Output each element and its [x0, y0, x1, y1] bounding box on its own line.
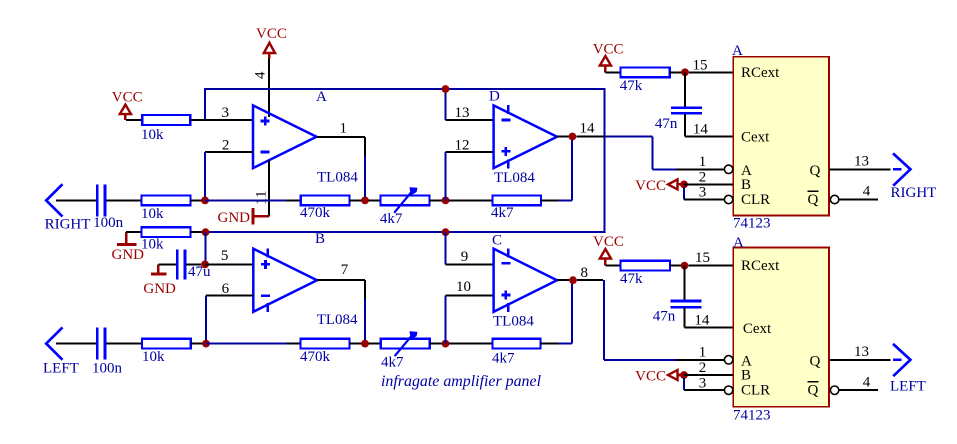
wire node to R 4k7	[449, 199, 493, 201]
designator A (74123 bottom)	[733, 235, 744, 251]
wire 100n to 10k	[106, 343, 142, 345]
power tick op-amp B top	[267, 248, 269, 257]
svg-text:Q: Q	[810, 163, 821, 179]
pin label A (bottom IC)	[741, 353, 752, 369]
op-amp U1C TL084	[494, 249, 557, 312]
wire pin 14 to 74123 pin 1	[576, 137, 724, 170]
power flag VCC (74123 A pins 2-3)	[635, 178, 681, 194]
pin number 13 (74123 A)	[854, 154, 869, 170]
svg-text:A: A	[732, 43, 743, 59]
svg-text:TL084: TL084	[317, 312, 358, 328]
wire GND to 10k	[126, 231, 142, 233]
node junction (pin 5)	[201, 261, 209, 269]
pin number 9 (op-amp C)	[461, 249, 469, 265]
svg-text:TL084: TL084	[317, 169, 358, 185]
svg-text:47k: 47k	[620, 271, 643, 287]
svg-text:4: 4	[863, 374, 871, 390]
pin label RCext (top IC)	[741, 65, 780, 81]
power tick op-amp B bottom	[267, 303, 269, 312]
wire net A bus (down to pin3 row, across top, down right side, back as net B)	[205, 89, 605, 232]
capacitor 47n (bottom)	[653, 301, 702, 325]
svg-text:D: D	[489, 88, 500, 104]
svg-text:4k7: 4k7	[381, 354, 404, 370]
port arrow LEFT input	[43, 327, 79, 376]
wire GND to 47u	[158, 263, 176, 265]
pin label A (top IC)	[741, 163, 752, 179]
node junction (op-amp A output feedback)	[361, 197, 369, 205]
node junction (op-amp C output)	[569, 276, 577, 284]
power tick op-amp D top	[507, 105, 509, 114]
pin number 12 (op-amp D)	[455, 138, 470, 154]
svg-text:CLR: CLR	[741, 192, 770, 208]
pin number 2 (74123 A)	[699, 170, 707, 186]
node junction (pins 2-3 VCC)	[680, 181, 688, 189]
svg-text:10k: 10k	[142, 349, 165, 365]
wire net A to pin 13	[446, 89, 494, 120]
resistor 4k7 (to op-amp D)	[491, 196, 541, 222]
label 74123 (bottom)	[733, 408, 771, 424]
wire 47n to Cext pin 14	[685, 114, 733, 136]
wire pin 1 output (to feedback node)	[317, 137, 366, 200]
svg-text:74123: 74123	[733, 408, 771, 424]
svg-text:A: A	[733, 235, 744, 251]
ground GND (op-amp A pin 11)	[218, 208, 269, 226]
bubble pin 1 (top IC)	[724, 165, 732, 173]
op-amp U1B TL084	[253, 249, 317, 312]
wire pin 3 elbow (top IC)	[684, 188, 724, 200]
resistor 10k (RIGHT input series)	[141, 196, 190, 223]
port arrow LEFT output	[890, 344, 926, 394]
power flag VCC (47k bottom)	[593, 234, 624, 266]
svg-text:3: 3	[222, 105, 230, 121]
svg-text:4: 4	[863, 184, 871, 200]
capacitor 100n (LEFT input)	[92, 328, 123, 377]
resistor 4k7 (to op-amp C)	[492, 339, 541, 367]
bubble pin 4 Qbar (bottom IC)	[830, 386, 838, 394]
svg-text:GND: GND	[112, 247, 145, 263]
svg-text:47n: 47n	[655, 116, 678, 132]
wire node down to pin 5 node	[205, 232, 207, 264]
svg-text:RCext: RCext	[741, 258, 780, 274]
wire LEFT arrow to C 100n	[56, 343, 96, 345]
pin number 1 (74123 A)	[699, 154, 707, 170]
svg-text:Q: Q	[810, 353, 821, 369]
svg-text:B: B	[741, 367, 751, 383]
svg-text:RIGHT: RIGHT	[45, 217, 91, 233]
svg-text:4k7: 4k7	[491, 205, 514, 221]
pin number 2 (74123 B)	[699, 360, 707, 376]
resistor 470k (op-amp A feedback)	[300, 196, 349, 222]
svg-text:2: 2	[222, 138, 230, 154]
node junction (RCext bottom)	[681, 262, 689, 270]
svg-text:C: C	[492, 233, 502, 249]
wire pin 3 elbow (bottom IC)	[684, 378, 724, 390]
svg-text:2: 2	[699, 170, 707, 186]
pin number 3	[222, 105, 230, 121]
svg-text:RIGHT: RIGHT	[891, 185, 937, 201]
designator C	[492, 233, 502, 249]
bubble pin 3 CLR (top IC)	[724, 195, 732, 203]
svg-text:8: 8	[580, 265, 588, 281]
svg-text:10k: 10k	[141, 206, 164, 222]
wire node to pot	[369, 343, 381, 345]
pin label Q (top IC)	[810, 163, 821, 179]
wire node to R 4k7	[449, 343, 493, 345]
svg-text:10: 10	[456, 279, 471, 295]
pin number 8 (op-amp C)	[580, 265, 588, 281]
pin number 6	[222, 281, 230, 297]
label TL084 (B)	[317, 312, 358, 328]
pin number 14 (op-amp D)	[580, 121, 596, 137]
pin number 15 (74123 A)	[693, 58, 708, 74]
svg-text:LEFT: LEFT	[890, 378, 926, 394]
pin number 1 (74123 B)	[699, 345, 707, 361]
capacitor 47u	[177, 249, 211, 279]
resistor 10k (pin 3 bias)	[141, 115, 190, 143]
svg-text:11: 11	[254, 191, 270, 205]
wire VCC to 47k	[605, 71, 620, 73]
svg-text:4k7: 4k7	[492, 351, 515, 367]
wire 10k to node	[190, 231, 202, 233]
wire pin 4 (top IC)	[839, 199, 878, 201]
power flag VCC (op-amp A pin 4)	[256, 26, 287, 59]
designator A (74123 top)	[732, 43, 743, 59]
svg-text:100n: 100n	[92, 360, 123, 376]
svg-text:VCC: VCC	[635, 178, 666, 194]
wire node to pot	[369, 199, 381, 201]
wire pin 4 (bottom IC)	[839, 389, 878, 391]
resistor 10k (net B bias)	[141, 227, 190, 252]
wire 100n to 10k	[106, 199, 141, 201]
svg-text:74123: 74123	[733, 216, 771, 232]
ground GND (47u)	[143, 264, 176, 297]
op-amp U1D TL084	[494, 105, 557, 168]
svg-text:B: B	[315, 231, 325, 247]
pin label B (bottom IC)	[741, 367, 751, 383]
svg-text:1: 1	[340, 121, 348, 137]
IC U2B 74123 body	[733, 248, 829, 407]
svg-text:1: 1	[699, 345, 707, 361]
svg-text:B: B	[741, 177, 751, 193]
wire pot to node	[430, 199, 442, 201]
bubble pin 4 Qbar (top IC)	[830, 195, 838, 203]
pin number 1	[340, 121, 348, 137]
node junction (op-amp D output)	[569, 133, 577, 141]
node junction (op-amp B inverting input)	[202, 340, 210, 348]
svg-text:VCC: VCC	[593, 42, 624, 58]
capacitor 47n (top)	[655, 108, 702, 132]
svg-text:12: 12	[455, 138, 470, 154]
IC U2A 74123 body	[733, 57, 829, 216]
pin number 5	[221, 248, 229, 264]
power tick op-amp C top	[507, 248, 509, 257]
svg-text:1: 1	[699, 154, 707, 170]
wire pin 2 elbow	[205, 152, 253, 200]
svg-text:10k: 10k	[141, 127, 164, 143]
port arrow RIGHT output	[891, 153, 937, 201]
power flag VCC (74123 B pins 2-3)	[635, 368, 681, 384]
svg-text:VCC: VCC	[112, 90, 143, 106]
svg-text:14: 14	[693, 121, 709, 137]
pin label CLR (top IC)	[741, 192, 770, 208]
node junction (pin 12 tap)	[442, 197, 450, 205]
svg-text:2: 2	[699, 360, 707, 376]
svg-text:10k: 10k	[141, 237, 164, 253]
svg-text:4: 4	[253, 71, 269, 79]
wire pin 12 elbow	[445, 152, 493, 200]
label TL084 (D)	[494, 170, 535, 186]
pin number 7	[341, 262, 349, 278]
designator D	[489, 88, 500, 104]
svg-text:Q: Q	[808, 383, 819, 399]
power flag VCC (10k bias)	[112, 90, 143, 120]
pin number 10 (op-amp C)	[456, 279, 471, 295]
label TL084 (A)	[317, 169, 358, 185]
node junction (op-amp A inverting input)	[201, 197, 209, 205]
svg-text:9: 9	[461, 249, 469, 265]
svg-text:14: 14	[580, 121, 596, 137]
node junction (pins 2-3 VCC bottom)	[680, 371, 688, 379]
pin number 13 (74123 B)	[854, 344, 869, 360]
node junction (net A / pin 13)	[442, 85, 450, 93]
wire pin 11 (op-amp A to ground)	[268, 160, 270, 216]
power tick op-amp C bottom	[507, 303, 509, 312]
svg-text:470k: 470k	[300, 205, 331, 221]
pin number 15 (74123 B)	[695, 250, 710, 266]
pin number 14 (74123 B Cext)	[694, 312, 710, 328]
svg-text:3: 3	[699, 375, 707, 391]
svg-text:Q: Q	[808, 192, 819, 208]
wire pin 10 elbow	[445, 296, 493, 344]
svg-text:GND: GND	[143, 281, 176, 297]
pin number 14 (74123 A Cext)	[693, 121, 709, 137]
bubble pin 1 (bottom IC)	[724, 356, 732, 364]
svg-text:7: 7	[341, 262, 349, 278]
net label A	[316, 89, 327, 105]
svg-text:A: A	[316, 89, 327, 105]
capacitor 100n (RIGHT input)	[93, 184, 124, 231]
wire 10k to node	[191, 343, 203, 345]
pin number 3 (74123 A)	[699, 185, 707, 201]
pin number 13 (op-amp D)	[455, 105, 470, 121]
node junction (op-amp B output feedback)	[361, 340, 369, 348]
resistor 47k (bottom)	[620, 261, 670, 287]
label TL084 (C)	[493, 314, 534, 330]
svg-text:TL084: TL084	[494, 170, 535, 186]
resistor 10k (LEFT input series)	[142, 339, 191, 365]
svg-text:Cext: Cext	[743, 321, 772, 337]
ground GND (10k bias bottom)	[112, 232, 145, 263]
svg-text:RCext: RCext	[741, 65, 780, 81]
wire 4k7 up to op-amp D output	[541, 137, 572, 201]
svg-text:CLR: CLR	[741, 382, 770, 398]
wire pin 14 output	[557, 136, 569, 138]
pin number 4 (74123 A)	[863, 184, 871, 200]
bubble pin 3 CLR (bottom IC)	[724, 386, 732, 394]
svg-text:13: 13	[455, 105, 470, 121]
svg-text:15: 15	[693, 58, 708, 74]
node junction (net B / pin 9)	[442, 228, 450, 236]
pin label Q (bottom IC)	[810, 353, 821, 369]
pin label B (top IC)	[741, 177, 751, 193]
pin number 4 (74123 B)	[863, 374, 871, 390]
wire 47u to node	[186, 263, 201, 265]
svg-text:15: 15	[695, 250, 710, 266]
svg-text:infragate amplifier panel: infragate amplifier panel	[381, 373, 541, 390]
wire VCC stem to R 10k	[126, 119, 142, 121]
wire pot to node	[430, 343, 442, 345]
port arrow RIGHT input	[45, 184, 91, 232]
wire node down to 47n	[684, 266, 686, 300]
pin label Cext (top IC)	[741, 129, 770, 145]
wire pin 2 (top IC)	[684, 183, 733, 185]
wire node down to 47n	[684, 72, 686, 106]
svg-text:4k7: 4k7	[380, 211, 403, 227]
pin number 4 (rotated)	[253, 71, 269, 79]
svg-text:GND: GND	[218, 210, 251, 226]
node junction (net B / bias)	[202, 228, 210, 236]
wire pin 7 output	[317, 280, 365, 343]
wire net B to pin 9	[446, 232, 494, 264]
svg-text:VCC: VCC	[635, 368, 666, 384]
svg-text:47k: 47k	[620, 78, 643, 94]
wire pin 13 Q output (top IC)	[829, 168, 891, 170]
wire 47k to node	[670, 265, 681, 267]
power flag VCC (47k top)	[593, 42, 624, 73]
pin number 11 (rotated)	[254, 191, 270, 205]
wire node to R 470k	[205, 199, 301, 201]
wire 10k to node	[190, 199, 202, 201]
svg-text:VCC: VCC	[256, 26, 287, 42]
pin label Cext (bottom IC)	[743, 321, 772, 337]
wire node to pin 5	[205, 263, 253, 265]
wire pin 4 (VCC to op-amp A top)	[268, 59, 270, 118]
svg-text:14: 14	[694, 312, 710, 328]
svg-text:100n: 100n	[93, 215, 124, 231]
wire VCC to 47k	[605, 265, 620, 267]
label 74123 (top)	[733, 216, 771, 232]
pin label RCext (bottom IC)	[741, 258, 780, 274]
svg-text:3: 3	[699, 185, 707, 201]
wire pin 6 elbow	[206, 296, 253, 344]
svg-text:TL084: TL084	[493, 314, 534, 330]
pin number 3 (74123 B)	[699, 375, 707, 391]
wire 10k to pin 3	[190, 119, 253, 121]
wire 4k7 up to op-amp C output	[541, 280, 572, 343]
svg-text:470k: 470k	[300, 349, 331, 365]
svg-text:5: 5	[221, 248, 229, 264]
wire 47n to Cext pin 14	[685, 307, 734, 327]
svg-text:LEFT: LEFT	[43, 360, 79, 376]
svg-text:VCC: VCC	[593, 234, 624, 250]
wire RIGHT arrow to C 100n	[56, 199, 96, 201]
node junction (RCext top)	[681, 68, 689, 76]
pin label Qbar (top IC)	[808, 191, 819, 208]
pin label CLR (bottom IC)	[741, 382, 770, 398]
node junction (pin 10 tap)	[442, 340, 450, 348]
wire pin 2 (bottom IC)	[684, 374, 733, 376]
svg-text:Cext: Cext	[741, 129, 770, 145]
wire pin 8 to 74123 pin 1	[577, 280, 725, 360]
pin number 2	[222, 138, 230, 154]
wire 470k to node	[350, 343, 362, 345]
wire 470k to node	[349, 199, 361, 201]
wire pin 8 output	[557, 279, 569, 281]
svg-text:47n: 47n	[653, 309, 676, 325]
wire node to R 470k	[206, 343, 301, 345]
wire node to RCext pin 15	[689, 71, 733, 73]
wire node to RCext pin 15	[688, 265, 733, 267]
caption infragate amplifier panel	[381, 373, 541, 390]
net label B	[315, 231, 325, 247]
pin label Qbar (bottom IC)	[808, 382, 819, 399]
wire pin 13 Q output (bottom IC)	[829, 359, 891, 361]
resistor 47k (top)	[620, 67, 670, 93]
potentiometer 4k7 (top)	[380, 188, 430, 227]
svg-text:13: 13	[854, 154, 869, 170]
potentiometer 4k7 (bottom)	[381, 332, 430, 371]
resistor 470k (op-amp B feedback)	[300, 339, 350, 365]
op-amp U1A TL084	[253, 105, 317, 168]
svg-text:6: 6	[222, 281, 230, 297]
power tick op-amp D bottom	[507, 159, 509, 168]
svg-text:13: 13	[854, 344, 869, 360]
wire 47k to node	[670, 71, 682, 73]
